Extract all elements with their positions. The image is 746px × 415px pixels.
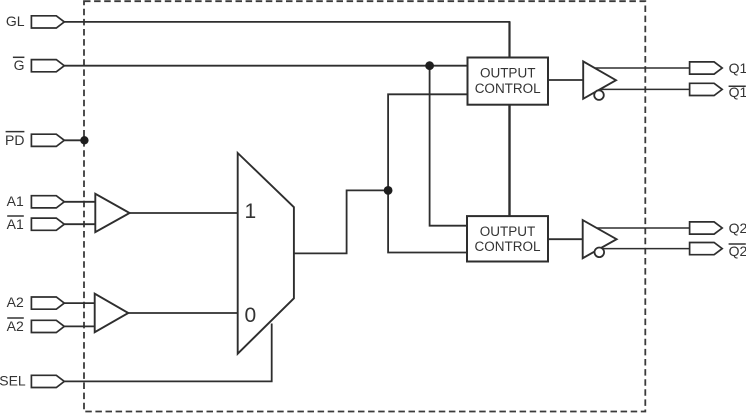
wire node to output control U2 lower left	[388, 190, 467, 252]
wire G to output control U1 left	[64, 65, 467, 67]
svg-text:Q1: Q1	[729, 60, 746, 76]
pin Q2	[690, 222, 723, 234]
pin Q1	[690, 62, 723, 74]
svg-text:GL: GL	[6, 13, 25, 29]
wire node to output control U1 lower left	[388, 94, 467, 190]
svg-text:A2: A2	[7, 318, 24, 334]
svg-text:A1: A1	[7, 216, 24, 232]
svg-text:CONTROL: CONTROL	[475, 81, 541, 96]
output control U2 box	[467, 216, 548, 261]
svg-text:Q2: Q2	[729, 220, 746, 236]
wire output control U1 to output control U2	[508, 105, 510, 216]
wire A1 to receiver	[64, 201, 95, 203]
svg-text:PD: PD	[5, 132, 24, 148]
wire driver1 inverted to pin Q1B	[599, 88, 689, 90]
svg-text:0: 0	[245, 304, 257, 327]
wire driver1 to pin Q1	[595, 67, 690, 69]
svg-text:OUTPUT: OUTPUT	[480, 66, 536, 81]
wire receiver1 output to mux input 1	[130, 212, 238, 214]
pin A1B	[31, 218, 64, 230]
pin Q1B	[690, 83, 723, 95]
pin A1	[31, 196, 64, 208]
wire GL to output control U1 top	[64, 21, 510, 23]
wire receiver2 output to mux input 0	[128, 312, 237, 314]
svg-text:CONTROL: CONTROL	[474, 239, 540, 254]
svg-text:Q2: Q2	[729, 243, 746, 259]
wire mux output to node	[294, 190, 388, 253]
pin SEL	[31, 375, 64, 387]
differential driver 1	[583, 61, 616, 98]
wire driver2 to pin Q2	[597, 227, 690, 229]
pin PD	[31, 134, 64, 146]
wire driver2 inverted to pin Q2B	[600, 248, 690, 250]
svg-text:SEL: SEL	[0, 373, 26, 389]
junction PD on boundary	[80, 136, 88, 144]
svg-text:A1: A1	[7, 193, 24, 209]
svg-text:OUTPUT: OUTPUT	[480, 224, 536, 239]
wire PD stub	[64, 139, 84, 141]
output control U1 box	[468, 58, 549, 105]
svg-text:1: 1	[245, 200, 257, 223]
wire SEL to mux bottom	[64, 324, 271, 382]
wire G branch to output control U2 left	[430, 66, 467, 226]
driver 1 inversion bubble	[594, 90, 604, 100]
pin G	[31, 60, 64, 72]
driver 2 inversion bubble	[595, 248, 605, 258]
wire output control U1 to driver 1	[548, 79, 583, 81]
svg-text:G: G	[14, 57, 25, 73]
junction on G net	[425, 61, 434, 70]
receiver amplifier 1	[95, 194, 129, 232]
pin A2	[31, 297, 64, 309]
pin GL	[31, 16, 64, 28]
pin Q2B	[690, 243, 723, 255]
differential driver 2	[583, 220, 617, 258]
wire output control U2 to driver 2	[548, 238, 583, 240]
multiplexer	[238, 153, 294, 354]
pin A2B	[31, 320, 64, 332]
wire A2B to receiver	[64, 325, 94, 327]
receiver amplifier 2	[95, 294, 129, 333]
junction on mux output net	[384, 186, 393, 195]
svg-text:A2: A2	[7, 294, 24, 310]
wire A1B to receiver	[64, 223, 95, 225]
dashed device boundary	[84, 1, 645, 411]
wire A2 to receiver	[64, 302, 94, 304]
